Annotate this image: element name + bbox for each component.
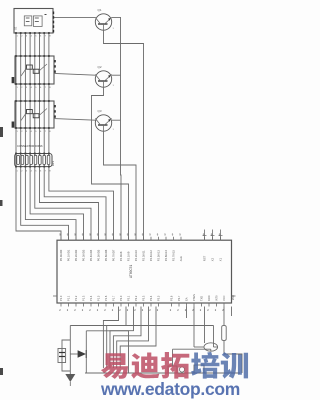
svg-text:P3.7: P3.7	[177, 295, 181, 301]
svg-text:P3.3: P3.3	[142, 295, 146, 301]
svg-text:P0.3/AD3: P0.3/AD3	[82, 249, 86, 261]
svg-text:P0.0/AD0: P0.0/AD0	[59, 249, 63, 261]
svg-text:CONNECTOR DIP16: CONNECTOR DIP16	[17, 144, 43, 148]
svg-text:X2: X2	[211, 257, 215, 261]
svg-text:P2.7/A15: P2.7/A15	[172, 250, 176, 262]
svg-text:P1.1: P1.1	[67, 295, 71, 301]
svg-text:RXD: RXD	[207, 295, 211, 301]
svg-text:Q1: Q1	[98, 8, 102, 12]
svg-text:X1: X1	[219, 257, 223, 261]
svg-text:P2.2/A10: P2.2/A10	[134, 250, 138, 262]
svg-text:P0.5/AD5: P0.5/AD5	[97, 249, 101, 261]
svg-text:P0.1/AD1: P0.1/AD1	[67, 249, 71, 261]
svg-text:VCC: VCC	[222, 295, 226, 301]
svg-text:P1.2: P1.2	[74, 295, 78, 301]
svg-text:P0.4/AD4: P0.4/AD4	[89, 249, 93, 261]
svg-text:AT89C51: AT89C51	[129, 265, 133, 278]
svg-text:P2.6/A14: P2.6/A14	[164, 250, 168, 262]
svg-text:P2.5/A13: P2.5/A13	[157, 250, 161, 262]
svg-text:P1.7: P1.7	[112, 295, 116, 301]
svg-text:P2.4/A12: P2.4/A12	[149, 250, 153, 262]
svg-text:TXD: TXD	[200, 296, 204, 301]
svg-text:P1.0: P1.0	[59, 295, 63, 301]
svg-text:U1: U1	[14, 26, 18, 30]
svg-text:P3.5: P3.5	[157, 295, 161, 301]
svg-text:Q2: Q2	[98, 65, 102, 69]
svg-text:P1.5: P1.5	[97, 295, 101, 301]
svg-text:P2.0/A8: P2.0/A8	[119, 251, 123, 261]
svg-text:RP1: RP1	[51, 160, 55, 166]
svg-text:P3.6: P3.6	[170, 295, 174, 301]
svg-text:P2.3/A11: P2.3/A11	[142, 250, 146, 261]
svg-text:P1.6: P1.6	[104, 295, 108, 301]
svg-text:www.edatop.com: www.edatop.com	[100, 379, 240, 399]
svg-text:P2.1/A9: P2.1/A9	[127, 251, 131, 261]
svg-text:ALE: ALE	[179, 256, 183, 261]
svg-text:P3.1: P3.1	[127, 295, 131, 301]
svg-text:P0.6/AD6: P0.6/AD6	[104, 249, 108, 261]
svg-text:EA: EA	[185, 297, 189, 301]
svg-text:P1.4: P1.4	[89, 295, 93, 301]
svg-text:P3.2: P3.2	[134, 295, 138, 301]
svg-text:P1.3: P1.3	[82, 295, 86, 301]
svg-text:P3.0: P3.0	[119, 295, 123, 301]
svg-text:PSEN: PSEN	[192, 294, 196, 301]
svg-text:RST: RST	[203, 255, 207, 261]
svg-text:P3.4: P3.4	[149, 295, 153, 301]
svg-text:VCC: VCC	[232, 295, 235, 300]
svg-text:P0.7/AD7: P0.7/AD7	[112, 249, 116, 261]
svg-text:INT0: INT0	[215, 295, 219, 301]
svg-text:Q3: Q3	[98, 109, 102, 113]
svg-text:P0.2/AD2: P0.2/AD2	[74, 249, 78, 261]
